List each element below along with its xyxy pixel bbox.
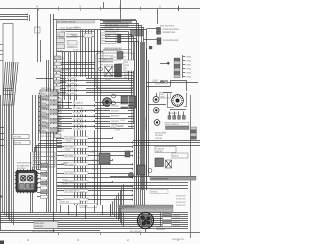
fuse F1	[57, 32, 65, 37]
clock gauge	[103, 98, 112, 107]
left edge dot	[0, 196, 2, 198]
wire pair near border	[46, 60, 48, 212]
wire label tag B	[14, 141, 30, 145]
pin ladder	[41, 163, 48, 166]
wire label tag A	[12, 135, 29, 139]
wire bends below fuse block	[41, 141, 63, 171]
cluster dark block	[121, 96, 136, 108]
wire	[147, 28, 157, 30]
wire stub	[29, 15, 31, 21]
gauge box with X	[105, 67, 113, 77]
molded splice dark block	[131, 30, 144, 37]
legend bracket	[182, 55, 184, 78]
wire label tag A	[12, 135, 29, 139]
distributor surround wires	[168, 94, 174, 108]
wire drop top-center	[120, 0, 122, 20]
relay K3	[166, 160, 172, 168]
fuse block	[40, 90, 58, 133]
cluster wires fan	[60, 72, 133, 74]
arrow node	[167, 62, 170, 65]
wire label tag B	[14, 141, 30, 145]
bulkhead connector	[16, 171, 37, 193]
wire bundle center extra	[146, 48, 148, 190]
band drop stubs	[60, 205, 62, 213]
right page rule	[190, 95, 192, 238]
dash label bar	[103, 19, 132, 22]
wire	[37, 9, 39, 62]
wire run labels right	[110, 104, 128, 106]
tick on top rule	[178, 6, 180, 12]
small connector on distributor top	[161, 81, 164, 84]
connector strip pins	[55, 56, 62, 60]
relay K2	[155, 158, 164, 167]
splice label bar 2	[105, 23, 128, 26]
ground node circle	[129, 173, 134, 178]
main diagram border top	[53, 19, 136, 21]
lower-left label box	[33, 152, 55, 167]
alternator circle	[153, 97, 159, 103]
wire drop top	[103, 2, 105, 9]
wire rule	[56, 29, 103, 31]
resistor block	[137, 165, 145, 175]
fuse F2	[57, 38, 65, 43]
wire bends upper set	[100, 21, 137, 191]
component pair	[118, 34, 121, 38]
wire horizontal	[36, 78, 53, 80]
instrument cluster box	[96, 53, 134, 88]
left edge stubs	[0, 127, 4, 129]
bulkhead ticks	[17, 169, 19, 170]
instrument panel bar B	[121, 209, 173, 212]
upper small box A	[84, 34, 92, 38]
wire drops to band	[110, 204, 112, 213]
upper small box B	[68, 41, 77, 46]
run labels mid-lower	[64, 137, 88, 140]
rule under fuses	[57, 51, 103, 53]
headlamp label bar	[57, 20, 95, 23]
wire bend to distributor	[171, 81, 187, 92]
left harness box	[3, 24, 13, 106]
fuse F3	[57, 44, 65, 49]
ignition coil circle	[154, 120, 160, 126]
top border rule	[0, 8, 200, 10]
right bottom label column	[163, 214, 172, 217]
wire bundle center	[134, 42, 136, 190]
left harness polylines	[3, 62, 6, 213]
ignition switch box	[103, 51, 121, 61]
alternator gauge label	[124, 60, 135, 71]
right bottom bracket	[160, 213, 162, 227]
dark label bar right	[166, 126, 190, 129]
wire drop bundle upper	[80, 30, 82, 52]
wire drop bundle extension	[80, 52, 82, 78]
wire bundle inner-left	[74, 110, 76, 205]
main diagram border left	[50, 14, 52, 212]
left vertical wires	[32, 95, 34, 152]
end label box B	[80, 204, 97, 208]
ac label box	[155, 147, 176, 153]
label box small	[104, 27, 118, 31]
end label box A	[60, 200, 80, 204]
bottom border ticks	[58, 233, 60, 236]
scan texture	[0, 0, 1, 1]
instrument panel bar A	[118, 205, 173, 208]
cluster inner rules	[98, 58, 113, 60]
blower label bar	[110, 176, 196, 178]
front lighting label block	[34, 222, 58, 229]
bottom border rule	[0, 232, 200, 234]
wire group top-left	[0, 14, 28, 16]
wire bundle mid	[94, 50, 96, 205]
node	[148, 169, 152, 173]
wire drop right	[157, 9, 159, 25]
connector strip right-mid	[191, 127, 197, 130]
top extra ticks	[38, 9, 40, 11]
distributor	[172, 95, 184, 107]
wire	[148, 104, 166, 106]
wire drop bundle left	[62, 52, 64, 108]
main wire run rows	[57, 102, 134, 104]
component tag	[149, 46, 152, 49]
wire below connector	[145, 229, 147, 233]
gauge dark bar	[115, 64, 122, 77]
connector strip right-top	[174, 58, 180, 61]
heater label box	[101, 33, 116, 44]
wire rows pre-band	[57, 182, 188, 184]
bottom band extra lines	[0, 230, 100, 232]
left corner mark	[0, 241, 4, 244]
cluster small circle	[99, 67, 103, 71]
voltage reg circle	[154, 108, 159, 113]
auto resume label	[165, 122, 189, 125]
wiper motor connector	[157, 28, 161, 31]
alternator label	[160, 93, 171, 99]
bottom harness band	[0, 212, 188, 214]
node circle B	[112, 101, 116, 105]
junction box small	[125, 151, 130, 157]
pre-band label	[150, 190, 168, 193]
small junction box	[35, 27, 41, 33]
relay K1	[99, 153, 110, 164]
steering column connector	[138, 213, 154, 229]
wire run rows mid-lower	[57, 138, 112, 140]
wire	[146, 82, 198, 84]
washer pump connector	[157, 38, 161, 41]
left vertical wires lower	[30, 152, 32, 213]
wire rows right	[133, 140, 200, 142]
heater label box	[172, 153, 188, 158]
wire bundle center lower extension	[134, 190, 136, 205]
wire bends lower set	[105, 32, 129, 81]
fuse block side ticks	[39, 93, 40, 95]
fan labels	[66, 77, 86, 80]
spark components row	[168, 116, 171, 120]
upper area extra rules	[66, 31, 94, 33]
wire run labels	[72, 102, 95, 105]
wire left edge	[0, 95, 2, 230]
node circle A	[112, 94, 116, 98]
strip-to-cluster rows	[57, 62, 95, 64]
